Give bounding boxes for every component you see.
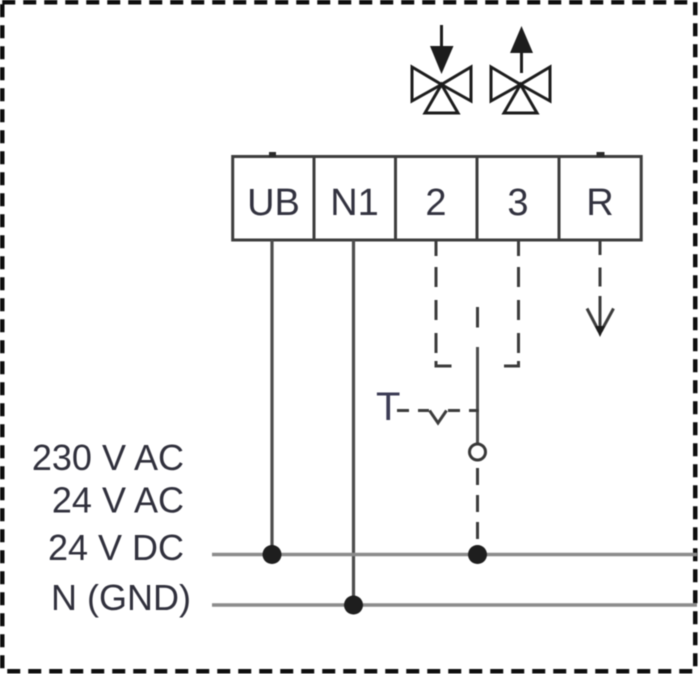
svg-text:24 V AC: 24 V AC [52,480,184,521]
elbow foot of terminal 2 wire [436,361,452,366]
wire N1 to N (GND) rail [352,240,355,605]
dashed wire from terminal 3 [517,267,520,353]
dashed link from T [397,409,429,412]
svg-text:N (GND): N (GND) [51,577,191,618]
arrow below terminal R [587,296,614,337]
junction contact wire / 24V rail [468,545,487,564]
switch notch [430,411,447,424]
junction UB / 24V rail [263,545,282,564]
terminal block outline [233,157,642,241]
svg-text:2: 2 [425,182,446,224]
dashed wire from terminal 2 [435,267,438,353]
junction N1 / N rail [344,596,363,615]
contact circle [470,444,486,460]
wire stub below terminal 3 [517,240,520,256]
terminal divider UB|N1 [313,157,316,241]
svg-text:N1: N1 [330,182,379,224]
tick above terminal R [597,152,605,157]
svg-text:24 V DC: 24 V DC [48,527,184,568]
terminal divider 3|R [558,157,561,241]
dashed wire below terminal R [599,268,602,287]
actuator stem dash (node between 2 and 3) [476,307,479,328]
terminal divider 2|3 [476,157,479,241]
valve V1 (3-way valve, arrow in) [412,25,471,113]
elbow foot of terminal 3 wire [504,361,519,366]
svg-text:3: 3 [507,182,528,224]
dashed link to stem [448,409,479,412]
24V supply rail [212,553,697,556]
N (GND) rail [212,603,697,606]
terminal divider N1|2 [394,157,397,241]
svg-text:R: R [586,182,613,224]
wire stub below terminal 2 [435,240,438,256]
tick above terminal UB [269,152,276,157]
valve V2 (3-way valve, arrow out) [491,26,550,113]
svg-text:UB: UB [247,182,300,224]
svg-text:T: T [376,385,400,429]
wire stub below terminal R [599,240,602,255]
svg-text:230 V AC: 230 V AC [32,437,184,478]
dashed wire below contact [476,468,479,552]
wire UB to 24V supply rail [270,240,273,555]
actuator stem wire [476,347,479,444]
